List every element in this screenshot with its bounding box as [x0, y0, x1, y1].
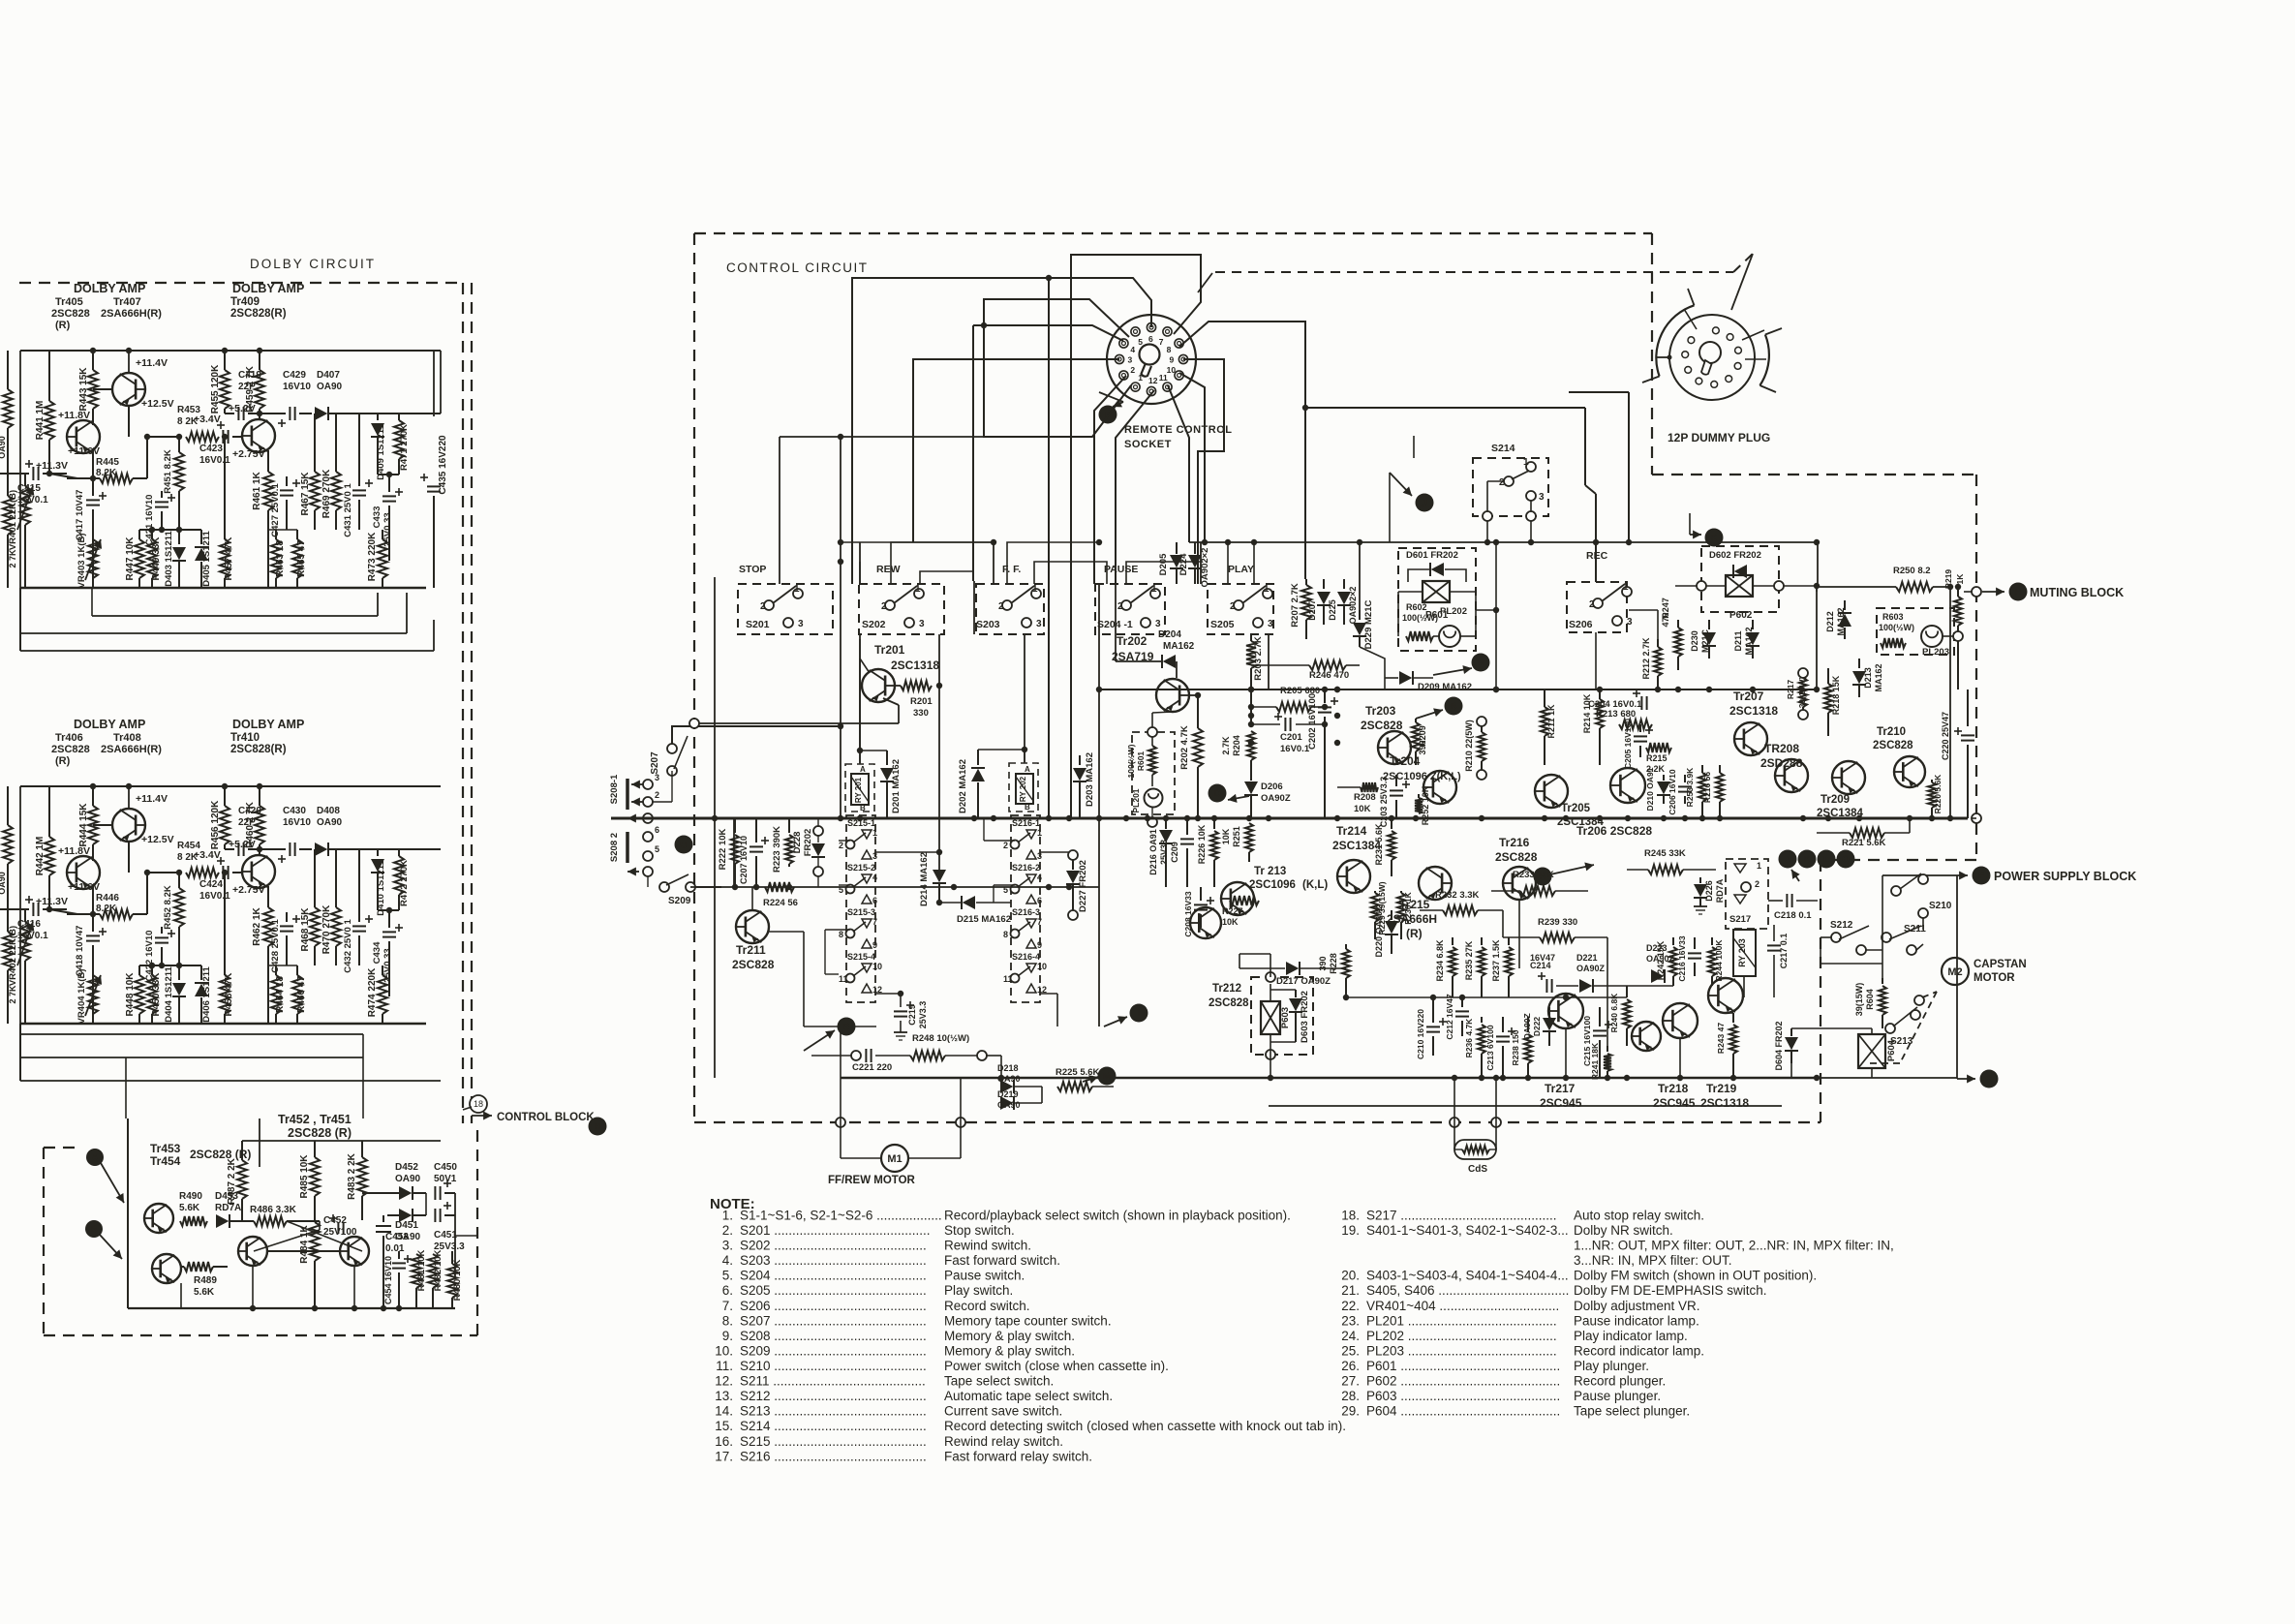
svg-text:2SC945: 2SC945 — [1653, 1096, 1696, 1110]
svg-text:2: 2 — [881, 601, 887, 612]
svg-text:S405, S406 ...................: S405, S406 .............................… — [1366, 1283, 1569, 1298]
svg-text:R470 270K: R470 270K — [321, 904, 332, 954]
svg-text:(R): (R) — [1406, 927, 1423, 940]
svg-text:R472 270K: R472 270K — [399, 860, 410, 906]
svg-text:R448 10K: R448 10K — [125, 972, 136, 1017]
svg-text:Memory & play switch.: Memory & play switch. — [944, 1329, 1075, 1343]
svg-text:C450: C450 — [434, 1162, 457, 1173]
svg-text:DOLBY AMP: DOLBY AMP — [232, 282, 304, 295]
svg-text:D: D — [1213, 789, 1220, 800]
svg-text:25.: 25. — [1341, 1344, 1360, 1359]
svg-text:D451: D451 — [395, 1220, 418, 1231]
capacitor C420 22P — [225, 848, 234, 850]
svg-text:10: 10 — [872, 962, 882, 971]
svg-text:R462 1K: R462 1K — [252, 906, 262, 945]
svg-text:PL202: PL202 — [1440, 606, 1467, 617]
resistor R449 33K — [151, 530, 153, 539]
svg-text:P603 .........................: P603 ...................................… — [1366, 1389, 1560, 1403]
svg-text:R473 220K: R473 220K — [367, 532, 378, 581]
svg-text:16V10: 16V10 — [283, 382, 311, 392]
svg-text:Record switch.: Record switch. — [944, 1299, 1030, 1313]
resistor R482 10K — [428, 1254, 438, 1288]
capacitor C216 16V33 — [1694, 937, 1696, 949]
long wire rows below unit B — [19, 1024, 21, 1081]
socket riser wires — [973, 324, 984, 326]
control circuit dashed border bottom — [694, 1121, 1821, 1123]
resistor R480 10K — [447, 1264, 457, 1298]
svg-text:2: 2 — [655, 790, 659, 800]
transistor Tr405 2SC828 — [67, 420, 100, 453]
resistor R460 2.7K — [259, 786, 260, 806]
svg-text:S212: S212 — [1830, 920, 1853, 931]
dummy plug keyhole — [1699, 342, 1721, 363]
amp405 bottom rail — [20, 587, 426, 590]
svg-text:Tr216: Tr216 — [1499, 836, 1530, 849]
circled 18 connector — [470, 1095, 487, 1113]
capstan motor wires — [1821, 936, 1831, 938]
svg-text:+12.5V: +12.5V — [141, 834, 174, 845]
capacitor C201 16V0.1 — [1284, 718, 1286, 731]
svg-text:Record plunger.: Record plunger. — [1574, 1374, 1666, 1389]
svg-text:R: R — [842, 1023, 850, 1033]
capacitor C209 25V33 — [1186, 818, 1188, 835]
socket pin 11 — [1163, 383, 1172, 391]
mid node wire — [147, 436, 179, 438]
resistor R459 2.7K — [259, 351, 260, 370]
svg-text:8.: 8. — [722, 1313, 733, 1328]
svg-text:R483 2 2K: R483 2 2K — [347, 1152, 357, 1200]
svg-text:D203 MA162: D203 MA162 — [1085, 752, 1095, 807]
svg-text:OA90: OA90 — [317, 382, 343, 392]
plunger P601 coil — [1423, 581, 1450, 602]
resistor R209 390 — [1415, 719, 1417, 722]
svg-text:R467 15K: R467 15K — [300, 472, 311, 516]
svg-text:PL202 ......................: PL202 ..................................… — [1366, 1329, 1557, 1343]
control circuit dashed border right — [1651, 233, 1653, 475]
wire P603 top — [1270, 954, 1271, 977]
switch S211 — [1882, 933, 1891, 942]
transistor Tr212 2SC828 — [1190, 907, 1221, 938]
socket pin 8 — [1175, 339, 1183, 348]
svg-text:S210 .........................: S210 ...................................… — [740, 1359, 927, 1373]
resistor R233 15K — [1520, 886, 1555, 896]
amp406 margin resistor — [3, 825, 13, 864]
socket wire pin9 — [1183, 359, 1224, 584]
diode D214 MA162 — [938, 634, 940, 870]
diode D201 MA162 — [886, 751, 888, 765]
svg-text:390: 390 — [1418, 740, 1427, 754]
svg-text:D206: D206 — [1261, 781, 1283, 792]
svg-text:11: 11 — [839, 974, 848, 984]
svg-text:R224 56: R224 56 — [763, 898, 798, 908]
transistor Tr214 2SC1384 — [1337, 860, 1370, 893]
svg-text:D201 MA162: D201 MA162 — [891, 759, 902, 813]
socket wire pin3 — [913, 359, 1119, 542]
switch S204 — [1121, 600, 1131, 610]
lamp PL201 — [1145, 789, 1163, 808]
resistor R223 390K — [788, 818, 790, 833]
transistor Tr454 — [152, 1254, 181, 1283]
svg-text:Memory tape counter switch.: Memory tape counter switch. — [944, 1313, 1112, 1328]
capacitor C203 25V3.3 — [1395, 775, 1397, 786]
svg-text:C218 0.1: C218 0.1 — [1774, 910, 1812, 921]
diode D403 1S1211 — [178, 530, 180, 544]
svg-text:VR401~404 ..................: VR401~404 ..............................… — [1366, 1299, 1559, 1313]
resistor R247 470 — [1677, 620, 1679, 628]
svg-text:S209 .........................: S209 ...................................… — [740, 1344, 927, 1359]
VR404 1K(B) — [92, 965, 94, 975]
svg-text:R243 47: R243 47 — [1716, 1023, 1726, 1054]
svg-text:D408: D408 — [317, 806, 340, 816]
relay RY203 and S217 — [1726, 859, 1768, 929]
socket keyhole — [1140, 345, 1160, 365]
svg-text:Pause indicator lamp.: Pause indicator lamp. — [1574, 1313, 1699, 1328]
svg-text:3...NR: IN, MPX filter: OUT.: 3...NR: IN, MPX filter: OUT. — [1574, 1253, 1732, 1268]
svg-text:6: 6 — [1148, 334, 1153, 344]
svg-text:S207: S207 — [650, 751, 660, 775]
transistor Tr206 2SC828 — [1610, 768, 1645, 803]
svg-text:D218: D218 — [997, 1063, 1019, 1073]
svg-text:D601 FR202: D601 FR202 — [1406, 550, 1458, 561]
resistor R458 47K — [224, 873, 226, 975]
svg-text:R484 1K: R484 1K — [299, 1224, 310, 1263]
svg-text:P602 .........................: P602 ...................................… — [1366, 1374, 1560, 1389]
svg-text:2SC1318: 2SC1318 — [891, 659, 939, 672]
svg-text:S206 .........................: S206 ...................................… — [740, 1299, 927, 1313]
resistor R229 39(15W) — [1374, 891, 1376, 893]
resistor R214 10K — [1599, 689, 1601, 699]
CONTROL BLOCK label — [472, 1115, 492, 1117]
svg-text:FR202: FR202 — [803, 829, 813, 857]
svg-text:P603: P603 — [1280, 1007, 1291, 1028]
svg-text:18: 18 — [474, 1099, 483, 1109]
svg-text:2SC828 (R): 2SC828 (R) — [288, 1126, 352, 1140]
svg-text:D211: D211 — [1733, 630, 1743, 651]
svg-text:R253 3.9K: R253 3.9K — [1685, 767, 1695, 807]
diode D211 MA162 — [1752, 620, 1754, 629]
resistor R227 10K — [1230, 896, 1259, 905]
resistor R226 10K — [1213, 818, 1215, 829]
svg-text:1: 1 — [1032, 584, 1038, 595]
svg-text:(R): (R) — [55, 755, 71, 767]
svg-text:Tr407: Tr407 — [113, 296, 141, 308]
svg-text:5: 5 — [1138, 337, 1143, 347]
diode D203 MA162 — [1079, 755, 1081, 765]
svg-text:R601: R601 — [1136, 751, 1146, 772]
svg-text:28.: 28. — [1341, 1389, 1360, 1403]
svg-text:R444 15K: R444 15K — [78, 803, 89, 847]
svg-text:3: 3 — [1036, 619, 1042, 629]
svg-text:Tr207: Tr207 — [1733, 689, 1764, 703]
svg-text:R214 10K: R214 10K — [1582, 693, 1592, 733]
svg-text:1: 1 — [794, 584, 800, 595]
resistor R248 10(1/2W) — [910, 1051, 945, 1060]
svg-text:D225: D225 — [1328, 599, 1337, 621]
diode D404 1S1211 — [178, 965, 180, 980]
resistor R225 5.6K — [1057, 1082, 1092, 1091]
amp405 left vertical — [19, 351, 21, 588]
svg-text:Tr409: Tr409 — [230, 296, 260, 308]
svg-text:C423: C423 — [199, 444, 223, 454]
svg-text:S206: S206 — [1569, 619, 1593, 630]
svg-text:R210 22(5W): R210 22(5W) — [1464, 720, 1474, 772]
diode D229 M21C — [1359, 610, 1361, 620]
svg-text:Record indicator lamp.: Record indicator lamp. — [1574, 1344, 1704, 1359]
wire from P601 to bus — [1476, 609, 1496, 611]
svg-text:R445: R445 — [96, 457, 119, 468]
svg-text:+11.3V: +11.3V — [36, 896, 68, 907]
svg-text:C434: C434 — [372, 941, 382, 964]
mid node wire — [147, 872, 179, 873]
connector arrow B — [85, 1220, 103, 1238]
svg-text:+2.75V: +2.75V — [232, 448, 265, 460]
amp405 top rail — [20, 350, 441, 352]
svg-text:1.: 1. — [722, 1209, 733, 1223]
svg-text:16V0.1: 16V0.1 — [1280, 744, 1310, 754]
svg-text:R480 10K: R480 10K — [452, 1259, 463, 1301]
svg-text:Pause plunger.: Pause plunger. — [1574, 1389, 1661, 1403]
transistor Tr217 2SC945 — [1548, 994, 1583, 1028]
svg-text:390: 390 — [1318, 956, 1328, 970]
svg-text:OA90: OA90 — [317, 817, 343, 828]
connector circles JKLQ — [1779, 850, 1797, 869]
diode D409 1S1211 — [377, 414, 379, 420]
svg-text:S215-4: S215-4 — [847, 952, 875, 962]
capacitor C210 16V220 — [1432, 997, 1434, 1023]
svg-text:2SC828: 2SC828 — [51, 308, 90, 320]
ground D226 — [1694, 905, 1707, 907]
svg-text:R486 3.3K: R486 3.3K — [250, 1205, 297, 1215]
svg-text:DOLBY AMP: DOLBY AMP — [232, 718, 304, 731]
plunger P602 dashed box — [1701, 546, 1779, 612]
diode D227 FR202 — [1068, 850, 1078, 860]
diode D406 1S1211 — [200, 965, 202, 980]
svg-text:Current save switch.: Current save switch. — [944, 1404, 1062, 1419]
capacitor C452 25V100 — [337, 1222, 339, 1234]
capacitor C204 16V0.1 — [1640, 696, 1642, 710]
svg-text:D207: D207 — [1307, 599, 1317, 621]
svg-text:R490: R490 — [179, 1191, 202, 1202]
socket connector arrow F — [1099, 406, 1117, 424]
CdS cell — [1450, 1118, 1459, 1127]
motor M2 — [1942, 958, 1969, 985]
transistor Tr205 2SC1384 — [1535, 775, 1568, 808]
connector arrow K — [1705, 529, 1724, 547]
motor M1 — [841, 1157, 881, 1159]
diode D217 OA90Z — [1286, 962, 1299, 975]
svg-text:2SC1384: 2SC1384 — [1332, 839, 1381, 852]
wires from flipflop to right — [425, 1193, 427, 1215]
resistor R442 1M — [48, 786, 50, 837]
svg-text:14.: 14. — [715, 1404, 733, 1419]
svg-text:R604: R604 — [1865, 989, 1875, 1010]
svg-text:R208: R208 — [1354, 792, 1376, 803]
resistor R465 47 — [296, 530, 298, 539]
wires around P601 — [1360, 647, 1385, 689]
amp405 margin resistor 2 — [3, 496, 13, 535]
svg-text:2SC828: 2SC828 — [51, 744, 90, 755]
svg-text:+5.2V: +5.2V — [229, 403, 256, 414]
resistor R242 15K — [1672, 937, 1674, 945]
svg-text:39(15W): 39(15W) — [1854, 983, 1864, 1017]
svg-text:D205: D205 — [1158, 553, 1169, 575]
svg-text:D213: D213 — [1863, 667, 1873, 689]
socket wire pin12 — [1116, 390, 1154, 542]
svg-text:2: 2 — [839, 841, 843, 850]
svg-text:REMOTE CONTROL: REMOTE CONTROL — [1124, 424, 1233, 436]
svg-text:2: 2 — [1230, 601, 1236, 612]
open circle on border — [1972, 587, 1981, 597]
svg-text:S204 .........................: S204 ...................................… — [740, 1269, 927, 1283]
capacitor C419 22P — [225, 413, 234, 414]
svg-text:1: 1 — [915, 584, 921, 595]
svg-text:S208-1: S208-1 — [609, 774, 620, 804]
connector arrow R — [838, 1018, 856, 1036]
resistor R252 10K — [1418, 794, 1420, 798]
svg-text:18.: 18. — [1341, 1209, 1360, 1223]
svg-text:PL203 ......................: PL203 ..................................… — [1366, 1344, 1557, 1359]
svg-text:11.: 11. — [716, 1359, 733, 1373]
svg-text:R207 2.7K: R207 2.7K — [1290, 583, 1300, 628]
svg-text:D410 1S1211: D410 1S1211 — [376, 860, 386, 916]
svg-text:R603: R603 — [1882, 612, 1904, 622]
svg-text:VR402 22K(B): VR402 22K(B) — [8, 926, 18, 986]
svg-text:R230 1K: R230 1K — [1403, 891, 1413, 924]
bottom bus H4 — [841, 1077, 1817, 1080]
svg-text:S1-1~S1-6, S2-1~S2-6 .........: S1-1~S1-6, S2-1~S2-6 .................. — [740, 1209, 942, 1223]
svg-text:R446: R446 — [96, 893, 119, 904]
resistor R445 8.2K — [49, 474, 77, 478]
svg-text:R452 8.2K: R452 8.2K — [163, 885, 173, 930]
svg-text:4: 4 — [1130, 345, 1135, 354]
svg-text:H: H — [2014, 588, 2021, 598]
svg-text:Tr205: Tr205 — [1561, 803, 1591, 814]
svg-text:B: B — [1450, 702, 1456, 713]
connector S208-1 — [626, 779, 629, 810]
svg-text:Tr 213: Tr 213 — [1254, 866, 1286, 877]
socket wire pin7 — [1071, 255, 1201, 818]
svg-text:10: 10 — [1167, 365, 1177, 375]
svg-text:R450 33K: R450 33K — [151, 972, 162, 1017]
svg-text:+11.4V: +11.4V — [136, 793, 168, 805]
resistor R456 120K — [224, 786, 226, 806]
diode D202 MA162 — [977, 750, 979, 765]
svg-text:2: 2 — [760, 601, 766, 612]
resistor R234 6.8K — [1452, 937, 1453, 945]
socket wire pin6 — [852, 278, 1151, 584]
svg-text:S215-2: S215-2 — [847, 863, 875, 873]
svg-text:3: 3 — [798, 619, 804, 629]
svg-text:RY 203: RY 203 — [1737, 938, 1747, 967]
transistor Tr409 2SC828 — [242, 419, 275, 452]
svg-text:L: L — [1823, 855, 1829, 866]
svg-text:Power switch (close when casse: Power switch (close when cassette in). — [944, 1359, 1169, 1373]
svg-text:R457 47K: R457 47K — [224, 536, 234, 581]
capacitor C434 25V0.33 — [388, 910, 390, 928]
svg-text:B: B — [1025, 803, 1030, 812]
svg-text:D406 1S1211: D406 1S1211 — [201, 966, 212, 1023]
svg-text:S216-3: S216-3 — [1012, 907, 1040, 917]
svg-text:CAPSTAN: CAPSTAN — [1974, 959, 2027, 970]
svg-text:16.: 16. — [715, 1434, 733, 1449]
svg-text:1: 1 — [1757, 861, 1761, 871]
svg-text:Tr217: Tr217 — [1545, 1082, 1576, 1095]
wire x1310 — [1268, 634, 1270, 689]
svg-text:S217 .........................: S217 ...................................… — [1366, 1209, 1557, 1223]
capacitor C217 0.1 — [1773, 925, 1775, 941]
svg-text:RD7A: RD7A — [1715, 878, 1725, 903]
wires lower center — [1239, 953, 1270, 955]
svg-text:C210 16V220: C210 16V220 — [1416, 1009, 1425, 1059]
svg-text:R227: R227 — [1222, 906, 1243, 916]
svg-text:9: 9 — [1170, 355, 1175, 365]
muting block arrow — [1816, 586, 1818, 592]
svg-text:D210 OA91: D210 OA91 — [1645, 767, 1655, 811]
svg-text:13.: 13. — [715, 1389, 733, 1403]
svg-text:2: 2 — [998, 601, 1004, 612]
svg-text:3: 3 — [1128, 355, 1133, 365]
svg-text:2: 2 — [1589, 599, 1595, 610]
capacitor C218 0.1 — [1786, 894, 1788, 907]
svg-text:C433: C433 — [372, 506, 382, 529]
transistor Tr452 — [238, 1237, 267, 1266]
svg-text:(K,L): (K,L) — [1302, 879, 1328, 891]
resistor R446 8.2K — [49, 909, 77, 914]
12P dummy plug body — [1669, 315, 1755, 400]
svg-text:1: 1 — [1138, 373, 1143, 383]
resistor R232 3.3K — [1443, 905, 1478, 915]
svg-text:H: H — [594, 1122, 600, 1133]
diode D451 OA90 — [399, 1209, 412, 1222]
transistor Tr406 2SC828 — [67, 856, 100, 889]
resistor R217 39(15W) — [1802, 668, 1804, 678]
resistor R241 18K — [1606, 1046, 1608, 1052]
resistor R238 150 — [1527, 1017, 1529, 1032]
svg-text:POWER SUPPLY BLOCK: POWER SUPPLY BLOCK — [1994, 870, 2136, 883]
svg-text:7: 7 — [1159, 337, 1164, 347]
svg-text:A: A — [860, 765, 866, 774]
svg-text:R217: R217 — [1786, 680, 1795, 700]
svg-text:Record/playback select switch: Record/playback select switch (shown in … — [944, 1209, 1291, 1223]
resistor R250 8.2 — [1896, 582, 1933, 592]
svg-text:7.: 7. — [722, 1299, 733, 1313]
svg-text:R218 15K: R218 15K — [1831, 675, 1841, 715]
svg-text:Tr204: Tr204 — [1390, 754, 1421, 768]
svg-text:D209 MA162: D209 MA162 — [1418, 682, 1472, 692]
svg-text:Dolby FM DE-EMPHASIS switch.: Dolby FM DE-EMPHASIS switch. — [1574, 1283, 1767, 1298]
svg-text:OA902×2: OA902×2 — [1348, 587, 1358, 625]
wire to power supply — [1882, 874, 1946, 876]
svg-text:MOTOR: MOTOR — [1974, 972, 2015, 984]
svg-text:PLAY: PLAY — [1228, 564, 1254, 575]
MUTING BLOCK — [1982, 591, 2004, 593]
svg-text:17.: 17. — [715, 1449, 733, 1463]
capacitor C453 0.01 — [382, 1215, 384, 1222]
svg-text:R202 4.7K: R202 4.7K — [1179, 725, 1190, 770]
svg-text:DOLBY AMP: DOLBY AMP — [74, 718, 145, 731]
switch S202 dashed box — [859, 584, 944, 634]
capacitor C208 16V33 — [1200, 887, 1202, 901]
svg-text:Tr210: Tr210 — [1877, 726, 1906, 738]
resistor R490 5.6K — [180, 1216, 207, 1226]
switch S209 — [659, 882, 669, 892]
svg-text:D220 OA90Z: D220 OA90Z — [1374, 905, 1384, 958]
svg-text:1: 1 — [1151, 584, 1157, 595]
wire x1135 — [1098, 584, 1100, 689]
svg-text:PL201: PL201 — [1131, 788, 1141, 812]
svg-text:S215 .........................: S215 ...................................… — [740, 1434, 927, 1449]
transistor Tr219 2SC1318 — [1708, 978, 1743, 1013]
